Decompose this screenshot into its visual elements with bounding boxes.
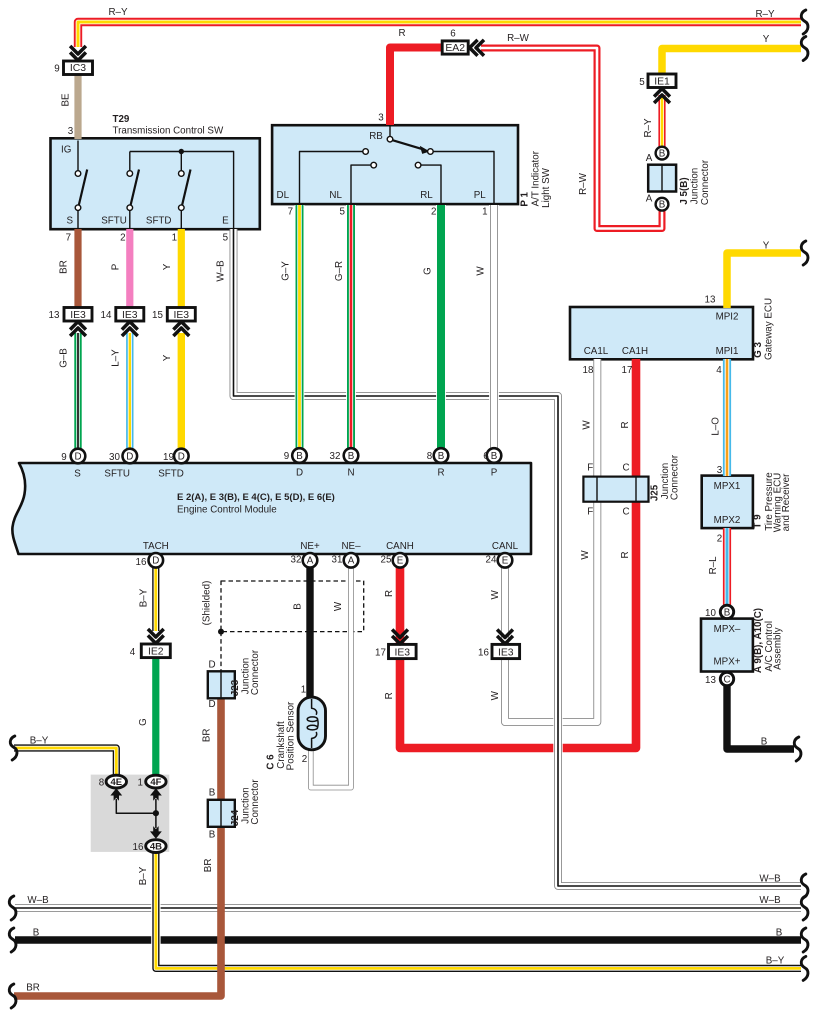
wire G from IE2 to terminal 4F	[152, 658, 159, 777]
svg-text:B–Y: B–Y	[139, 588, 150, 607]
break symbol BR left	[9, 984, 16, 1008]
arrow chevrons into IE1	[654, 89, 670, 103]
terminal oval 4B	[146, 840, 166, 853]
svg-text:NE–: NE–	[341, 541, 361, 552]
svg-text:7: 7	[66, 233, 71, 244]
svg-text:W: W	[476, 266, 487, 276]
connector IE2 box	[141, 644, 170, 658]
svg-text:D: D	[208, 699, 215, 710]
svg-text:IE3: IE3	[70, 310, 86, 321]
break symbol Y right	[801, 37, 808, 61]
svg-text:15: 15	[152, 310, 163, 321]
svg-text:J25: J25	[650, 484, 661, 501]
svg-text:25: 25	[381, 555, 392, 566]
wire Y top right to IE1	[662, 49, 801, 76]
svg-text:BR: BR	[59, 260, 70, 274]
wire R-Y main bus top	[78, 22, 801, 47]
svg-text:1: 1	[301, 685, 306, 696]
svg-text:B: B	[348, 451, 355, 462]
svg-text:5: 5	[339, 207, 345, 218]
svg-text:R: R	[620, 421, 631, 428]
svg-text:W–B: W–B	[759, 874, 781, 885]
svg-text:R: R	[384, 692, 395, 699]
junction connector J25 box	[583, 477, 648, 502]
break symbol B-Y right	[801, 956, 808, 980]
svg-text:32: 32	[291, 555, 302, 566]
tire pressure warning ECU T9 box	[702, 476, 753, 528]
svg-text:EA2: EA2	[445, 43, 465, 54]
svg-text:E: E	[502, 556, 509, 567]
svg-text:3: 3	[378, 113, 384, 124]
wire W CANL from ECM to gateway CA1L	[505, 359, 597, 722]
wire Y from IE3 to ECM pin SFTD	[178, 333, 185, 450]
ECM pin circle SFTD 19(D)	[174, 449, 189, 464]
break symbol W-B left	[9, 896, 16, 920]
transmission control switch T29 box	[51, 138, 260, 229]
svg-text:C: C	[622, 507, 629, 518]
wire B-Y from left edge to terminal 4E	[14, 748, 116, 775]
arrow chevrons into IE3 15	[173, 322, 189, 336]
shield junction dot	[218, 629, 224, 635]
T29 internal bus wire to E	[130, 152, 234, 230]
P1 contact DL circle	[363, 149, 369, 155]
wire B ground bus full width	[15, 936, 801, 943]
svg-text:4: 4	[130, 647, 136, 658]
connector IE3 box 15	[167, 308, 195, 322]
A/C pin circle B 10	[720, 605, 733, 618]
svg-text:A 9(B), A10(C): A 9(B), A10(C)	[753, 608, 764, 673]
engine control module ECM box with torn left edge	[12, 463, 531, 554]
svg-text:BE: BE	[61, 93, 72, 107]
wire R CANH from ECM to gateway CA1H	[400, 359, 636, 748]
svg-text:1: 1	[482, 207, 487, 218]
P1 contact RL wire	[421, 165, 441, 203]
svg-text:A: A	[307, 556, 314, 567]
ECM pin circle R 8(B)	[434, 448, 449, 463]
P1 contact DL wire	[300, 152, 363, 204]
T29 switch S contacts	[75, 171, 81, 177]
P1 switch lever with arrow	[393, 140, 424, 149]
terminal oval 4E	[106, 775, 126, 788]
svg-text:W–B: W–B	[215, 260, 226, 282]
svg-text:C: C	[723, 674, 730, 685]
gateway ECU G3 box	[570, 307, 753, 359]
connector IE1 box	[648, 74, 676, 88]
svg-text:9: 9	[284, 451, 289, 462]
arrow chevrons into IC3	[70, 46, 86, 60]
svg-text:D: D	[296, 468, 303, 479]
break symbol B-Y left	[10, 736, 17, 760]
wire W-B vertical right of ECM down to bottom right	[558, 402, 801, 886]
T29 internal junction node	[179, 149, 184, 154]
svg-text:19: 19	[163, 452, 174, 463]
svg-text:IE3: IE3	[173, 310, 189, 321]
svg-text:P 1: P 1	[519, 191, 530, 206]
svg-text:14: 14	[101, 310, 112, 321]
svg-text:5: 5	[223, 233, 229, 244]
arrow chevrons into IE3 13	[70, 322, 86, 336]
wire P from T29 pin 2	[126, 229, 133, 308]
C6 coil symbol	[307, 699, 318, 748]
wire R from EA2 to P1 pin 3	[390, 48, 443, 126]
svg-text:R: R	[437, 468, 444, 479]
svg-text:D: D	[208, 660, 215, 671]
J5(B) pin circle B top	[656, 147, 669, 160]
svg-text:F: F	[587, 507, 593, 518]
svg-text:IE2: IE2	[148, 647, 164, 658]
svg-text:G: G	[422, 267, 433, 275]
ground box arrow into 4F	[150, 788, 162, 813]
svg-text:E 2(A), E 3(B), E 4(C), E 5(D): E 2(A), E 3(B), E 4(C), E 5(D), E 6(E)	[177, 492, 335, 503]
wire Y right edge to gateway ECU pin 13	[727, 253, 801, 308]
svg-text:Gateway ECU: Gateway ECU	[764, 298, 775, 360]
svg-text:CANH: CANH	[386, 541, 414, 552]
P1 switch pivot RB	[387, 136, 393, 142]
svg-text:10: 10	[705, 608, 716, 619]
P1 contact PL wire	[433, 152, 494, 204]
wire W from ECM NE- looping to sensor pin 2	[311, 565, 351, 788]
svg-text:TACH: TACH	[143, 541, 169, 552]
T29 switch SFTU contacts	[127, 171, 133, 177]
svg-text:Assembly: Assembly	[773, 627, 784, 670]
break symbol W-B right	[801, 896, 808, 920]
arrow chevrons into EA2	[470, 40, 484, 56]
svg-text:Y: Y	[162, 263, 173, 270]
svg-text:B: B	[761, 737, 768, 748]
P1 contact PL circle	[428, 149, 434, 155]
svg-text:W: W	[333, 601, 344, 611]
svg-text:R–L: R–L	[708, 556, 719, 575]
svg-text:13: 13	[705, 675, 716, 686]
junction connector J23 box	[208, 671, 235, 698]
gray ground distribution box	[91, 775, 170, 852]
svg-text:IE1: IE1	[654, 77, 670, 88]
ECM pin circle SFTU 30(D)	[123, 449, 138, 464]
svg-text:2: 2	[431, 207, 436, 218]
svg-text:A: A	[348, 556, 355, 567]
svg-text:D: D	[178, 451, 185, 462]
svg-text:6: 6	[450, 29, 456, 40]
svg-text:1: 1	[172, 233, 177, 244]
svg-text:F: F	[587, 463, 593, 474]
ground box junction dot	[153, 810, 159, 816]
wire W-B from T29 pin 5 horizontal run	[234, 229, 559, 403]
svg-text:MPI2: MPI2	[716, 312, 739, 323]
svg-text:B: B	[724, 607, 731, 618]
T29 switch S internals	[78, 141, 87, 230]
svg-text:32: 32	[330, 451, 341, 462]
svg-text:BR: BR	[26, 983, 40, 994]
svg-text:IE3: IE3	[394, 648, 410, 659]
J5(B) pin circle B bottom	[656, 198, 669, 211]
break symbol B bus left	[9, 928, 16, 952]
svg-text:G 3: G 3	[753, 342, 764, 358]
svg-text:24: 24	[486, 555, 497, 566]
svg-text:3: 3	[68, 126, 74, 137]
break symbol B bus right	[801, 928, 808, 952]
svg-text:9: 9	[61, 452, 66, 463]
ground box arrow into 4E	[110, 788, 155, 813]
wire G-R from P1 NL to ECM pin N	[346, 205, 356, 449]
terminal oval 4F	[146, 775, 166, 788]
svg-text:MPI1: MPI1	[716, 346, 739, 357]
svg-text:D: D	[126, 451, 133, 462]
A/C pin circle C 13	[720, 672, 733, 685]
svg-text:1: 1	[137, 778, 142, 789]
svg-text:2: 2	[120, 233, 125, 244]
svg-text:G–Y: G–Y	[281, 261, 292, 281]
svg-text:J23: J23	[230, 679, 241, 696]
svg-text:17: 17	[622, 365, 633, 376]
svg-text:18: 18	[583, 365, 594, 376]
svg-text:A/T Indicator: A/T Indicator	[531, 150, 542, 206]
svg-text:G–B: G–B	[59, 348, 70, 368]
junction connector J24 box	[208, 800, 235, 827]
svg-text:R–W: R–W	[507, 33, 530, 44]
svg-text:L–Y: L–Y	[110, 349, 121, 367]
svg-text:4: 4	[716, 365, 722, 376]
connector IC3 box	[64, 61, 93, 75]
svg-text:C: C	[622, 463, 629, 474]
svg-text:A: A	[646, 193, 653, 204]
ECM pin circle TACH 16(D)	[149, 553, 164, 568]
wire W-B bus full width	[15, 904, 801, 912]
svg-text:SFTU: SFTU	[101, 216, 127, 227]
wire BE from IC3 to T29	[74, 74, 81, 139]
break symbol R-Y right	[801, 10, 808, 34]
ECM pin circle NE- 31(A)	[344, 553, 359, 568]
connector EA2 box	[442, 41, 468, 54]
svg-text:T29: T29	[113, 114, 130, 125]
svg-text:RB: RB	[369, 131, 383, 142]
A/C control assembly box	[701, 619, 753, 672]
ECM pin circle P 6(B)	[487, 448, 502, 463]
svg-text:B: B	[209, 788, 216, 799]
svg-text:8: 8	[427, 451, 433, 462]
svg-text:16: 16	[136, 557, 147, 568]
shielded cable dashed box	[221, 581, 364, 632]
arrow chevrons into IE3 16	[497, 630, 513, 644]
svg-text:Connector: Connector	[700, 159, 711, 205]
svg-text:and Receiver: and Receiver	[781, 473, 792, 531]
svg-text:13: 13	[49, 310, 60, 321]
P1 pin 3 internal stub wire	[389, 127, 391, 137]
connector IE3 box 14	[116, 308, 144, 322]
svg-text:17: 17	[375, 648, 386, 659]
svg-text:B–Y: B–Y	[138, 866, 149, 885]
svg-text:B: B	[776, 928, 783, 939]
junction connector J5(B) box	[648, 165, 676, 192]
svg-text:BR: BR	[201, 728, 212, 742]
svg-text:Y: Y	[763, 241, 770, 252]
svg-text:S: S	[74, 469, 81, 480]
arrow chevrons into IE2	[148, 629, 164, 643]
wire BR from J23 through J24 to bottom left edge	[14, 695, 221, 996]
svg-text:SFTD: SFTD	[158, 469, 184, 480]
svg-text:2: 2	[302, 754, 307, 765]
svg-text:W–B: W–B	[759, 895, 781, 906]
svg-text:PL: PL	[474, 190, 487, 201]
T29 switch SFTD contacts	[179, 171, 185, 177]
svg-text:Y: Y	[763, 34, 770, 45]
svg-text:B–Y: B–Y	[766, 956, 785, 967]
svg-text:Light SW: Light SW	[541, 167, 552, 208]
ECM pin circle D 9(B)	[292, 448, 307, 463]
svg-text:R: R	[384, 590, 395, 597]
svg-text:8: 8	[99, 778, 105, 789]
svg-text:RL: RL	[420, 190, 433, 201]
svg-text:W: W	[490, 590, 501, 600]
wire Y from T29 pin 1	[178, 229, 185, 308]
svg-text:R–Y: R–Y	[643, 118, 654, 138]
svg-text:N: N	[347, 468, 354, 479]
svg-text:30: 30	[109, 452, 120, 463]
svg-text:4F: 4F	[150, 777, 161, 788]
wire BR from T29 pin 7	[74, 229, 81, 308]
svg-text:B: B	[296, 451, 303, 462]
svg-text:SFTD: SFTD	[146, 216, 172, 227]
svg-text:IE3: IE3	[498, 648, 514, 659]
svg-text:S: S	[67, 216, 74, 227]
svg-text:L–O: L–O	[711, 417, 722, 436]
svg-text:Position Sensor: Position Sensor	[285, 701, 296, 770]
svg-text:6: 6	[483, 451, 489, 462]
svg-text:CA1H: CA1H	[622, 346, 648, 357]
svg-text:A: A	[646, 153, 653, 164]
svg-text:DL: DL	[277, 190, 290, 201]
break symbol W-B right upper	[801, 874, 808, 898]
svg-text:R–Y: R–Y	[755, 9, 775, 20]
svg-text:E: E	[222, 216, 229, 227]
P1 contact RL circle	[415, 162, 421, 168]
svg-text:5: 5	[639, 77, 645, 88]
svg-text:B: B	[293, 603, 304, 610]
svg-text:G–R: G–R	[334, 261, 345, 281]
wire R-L from T9 MPX2 to A/C MPX-	[723, 528, 731, 606]
A/T indicator light switch P1 box	[272, 125, 518, 204]
wire G-Y from P1 DL to ECM pin D	[295, 205, 305, 449]
shield drain dashed wire	[220, 632, 222, 671]
svg-text:Connector: Connector	[670, 454, 681, 500]
svg-text:2: 2	[717, 534, 722, 545]
svg-text:J 5(B): J 5(B)	[679, 177, 690, 204]
T29 switch SFTU internals	[130, 152, 139, 230]
ECM pin circle NE+ 32(A)	[303, 553, 318, 568]
arrow chevrons into IE3 14	[122, 322, 138, 336]
svg-text:16: 16	[133, 842, 144, 853]
svg-text:7: 7	[288, 207, 293, 218]
svg-text:31: 31	[332, 555, 343, 566]
svg-text:(Shielded): (Shielded)	[202, 581, 213, 626]
svg-text:P: P	[110, 263, 121, 270]
crankshaft position sensor C6 capsule	[298, 697, 325, 750]
wire L-O from gateway MPI1 to T9 MPX1	[723, 359, 731, 476]
svg-text:Connector: Connector	[250, 779, 261, 825]
svg-text:IC3: IC3	[70, 63, 86, 74]
svg-text:W: W	[582, 420, 593, 430]
P1 contact NL wire	[351, 165, 371, 203]
svg-text:J24: J24	[230, 809, 241, 826]
svg-text:B: B	[438, 451, 445, 462]
svg-text:CANL: CANL	[492, 541, 519, 552]
svg-text:Engine Control Module: Engine Control Module	[177, 505, 277, 516]
svg-text:D: D	[152, 556, 159, 567]
svg-text:MPX–: MPX–	[714, 624, 741, 635]
svg-text:MPX1: MPX1	[714, 481, 741, 492]
svg-text:B: B	[659, 200, 666, 211]
svg-text:Junction: Junction	[690, 168, 701, 205]
svg-text:MPX2: MPX2	[714, 515, 741, 526]
svg-text:B–Y: B–Y	[30, 735, 49, 746]
svg-text:B: B	[33, 928, 40, 939]
ECM pin circle S 9(D)	[71, 449, 86, 464]
svg-text:T 9: T 9	[753, 514, 764, 529]
svg-text:E: E	[397, 556, 404, 567]
svg-text:R: R	[398, 28, 405, 39]
svg-text:NL: NL	[329, 190, 342, 201]
svg-text:P: P	[491, 468, 498, 479]
wire R-Y from J5(B) to IE1	[658, 95, 665, 151]
svg-text:R–W: R–W	[578, 172, 589, 195]
svg-text:SFTU: SFTU	[104, 469, 130, 480]
wire B-Y from terminal 4B to bottom bus right	[156, 852, 801, 968]
break symbol Y gateway right	[801, 241, 808, 265]
connector IE3 box 17	[389, 644, 417, 658]
svg-text:9: 9	[54, 64, 59, 75]
svg-text:13: 13	[705, 295, 716, 306]
svg-text:R–Y: R–Y	[108, 7, 128, 18]
svg-text:B: B	[659, 149, 666, 160]
ground box arrow into 4B	[150, 813, 162, 839]
svg-text:MPX+: MPX+	[714, 657, 741, 668]
connector IE3 box 16	[492, 644, 520, 658]
svg-text:Y: Y	[162, 354, 173, 361]
svg-text:C 6: C 6	[266, 754, 277, 770]
svg-text:R: R	[620, 551, 631, 558]
wire B-Y from ECM TACH to IE2	[152, 565, 159, 631]
wire B from ECM NE+ to crankshaft sensor pin 1	[306, 565, 313, 701]
wire G from P1 RL to ECM pin R	[436, 205, 446, 449]
svg-text:B: B	[209, 830, 216, 841]
P1 contact NL circle	[371, 162, 377, 168]
svg-text:Transmission Control SW: Transmission Control SW	[113, 126, 224, 137]
svg-text:W–B: W–B	[27, 895, 49, 906]
wire W from P1 PL to ECM pin P	[489, 205, 499, 449]
svg-text:CA1L: CA1L	[584, 346, 609, 357]
svg-text:NE+: NE+	[300, 541, 320, 552]
wire L-Y from IE3 to ECM pin SFTU	[126, 333, 133, 450]
wire G-B from IE3 to ECM pin S	[74, 333, 81, 450]
svg-text:IG: IG	[61, 145, 71, 156]
svg-text:W: W	[490, 690, 501, 700]
ECM pin circle N 32(B)	[344, 448, 359, 463]
ECM pin circle CANH 25(E)	[393, 553, 408, 568]
wire R-W from EA2 to J5(B)	[481, 48, 662, 229]
svg-text:Connector: Connector	[250, 649, 261, 695]
svg-text:D: D	[74, 451, 81, 462]
svg-text:W: W	[580, 550, 591, 560]
svg-text:G: G	[138, 718, 149, 726]
svg-text:BR: BR	[203, 859, 214, 873]
T29 switch SFTD internals	[181, 152, 190, 230]
break symbol B right	[794, 737, 801, 761]
arrow chevrons into IE3 17	[392, 630, 408, 644]
wire B from A/C MPX+ to right edge	[727, 684, 794, 749]
svg-text:3: 3	[717, 465, 723, 476]
ECM pin circle CANL 24(E)	[498, 553, 513, 568]
connector IE3 box 13	[64, 308, 92, 322]
svg-text:4B: 4B	[150, 842, 162, 853]
